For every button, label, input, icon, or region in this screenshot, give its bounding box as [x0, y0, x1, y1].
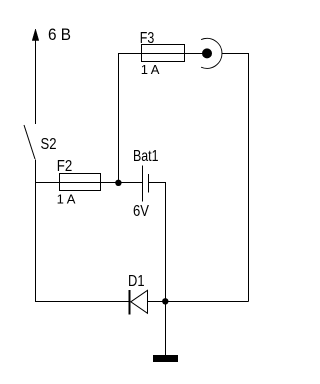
power arrow +6V — [32, 29, 39, 124]
connector socket pin (plug) — [202, 48, 212, 58]
fuse F3 — [142, 45, 185, 62]
svg-text:6 В: 6 В — [48, 26, 71, 44]
svg-text:F3: F3 — [140, 30, 155, 47]
diode D1 triangle — [131, 290, 148, 313]
wire from socket to right rail and down — [222, 54, 249, 302]
svg-text:F2: F2 — [57, 158, 73, 175]
battery Bat1 short plate — [148, 174, 150, 193]
svg-text:S2: S2 — [41, 136, 57, 153]
svg-text:1 A: 1 A — [57, 191, 76, 206]
node A junction dot — [115, 180, 121, 186]
wire left rail down to bottom, to diode — [36, 160, 129, 302]
fuse F2 — [60, 174, 101, 191]
bottom node junction dot — [162, 298, 168, 304]
svg-text:6V: 6V — [133, 203, 149, 220]
wire from battery down to bottom node — [149, 183, 166, 302]
ground bar — [153, 355, 178, 362]
switch S2 — [24, 125, 35, 159]
wire from node A up to fuse F3 — [119, 54, 208, 183]
svg-text:1 A: 1 A — [141, 62, 160, 77]
wire from diode to right rail — [148, 301, 249, 303]
connector socket arc — [201, 38, 222, 68]
svg-text:D1: D1 — [128, 273, 145, 290]
wire from bottom node to ground — [165, 302, 167, 356]
wire from left rail through fuse F2 to battery — [36, 182, 143, 184]
battery Bat1 long plate — [142, 166, 144, 202]
svg-text:Bat1: Bat1 — [133, 148, 159, 165]
diode D1 cathode bar — [129, 290, 131, 315]
